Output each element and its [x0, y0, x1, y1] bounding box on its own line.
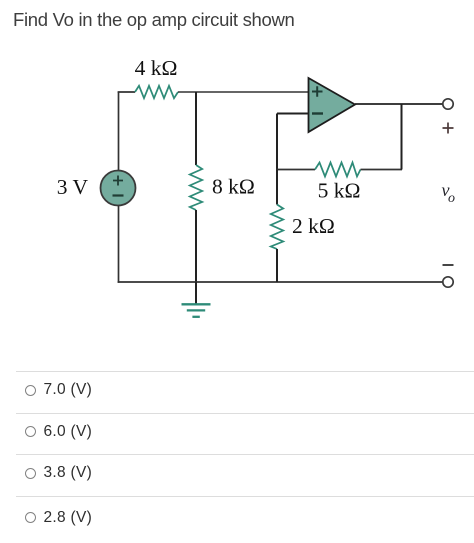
svg-text:8 kΩ: 8 kΩ	[212, 175, 255, 199]
wire minus-input node vertical down to feedback	[276, 114, 278, 171]
svg-text:2 kΩ: 2 kΩ	[292, 214, 335, 238]
wire top horizontal from 4k resistor to op-amp + input	[178, 91, 309, 93]
wire op-amp output	[355, 103, 443, 105]
label 2 kΩ	[292, 214, 335, 238]
wire 2k branch upper vertical	[276, 170, 278, 205]
label 4 kΩ	[135, 56, 178, 80]
label + at output	[443, 123, 454, 134]
wire feedback right vertical up to output	[401, 104, 403, 170]
resistor 8 kΩ (vertical zigzag)	[190, 165, 202, 210]
wire feedback horizontal left segment	[276, 169, 315, 171]
wire source bottom to bottom wire	[118, 206, 120, 283]
ground	[182, 282, 211, 317]
wire top horizontal left segment to 4k resistor	[118, 91, 135, 93]
op-amp U1	[309, 78, 356, 132]
label Vo	[442, 180, 456, 206]
resistor 5 kΩ (horizontal zigzag)	[315, 163, 361, 177]
voltage source 3V (circle with plus minus)	[101, 171, 136, 206]
resistor 4 kΩ (horizontal zigzag)	[135, 86, 178, 98]
output terminal bottom (open circle)	[443, 277, 453, 287]
svg-text:4 kΩ: 4 kΩ	[135, 56, 178, 80]
wire feedback horizontal right segment	[361, 169, 403, 171]
svg-text:3 V: 3 V	[57, 175, 89, 199]
wire 8k branch upper vertical	[195, 92, 197, 165]
label 8 kΩ	[212, 175, 255, 199]
resistor 2 kΩ (vertical zigzag)	[271, 205, 283, 250]
svg-text:5 kΩ: 5 kΩ	[318, 179, 361, 203]
label minus at output	[443, 264, 454, 266]
output terminal top (open circle)	[443, 99, 453, 109]
label 3 V	[57, 175, 89, 199]
wire op-amp minus input horizontal	[277, 113, 309, 115]
wire 8k branch lower vertical to bottom wire	[195, 210, 197, 282]
wire bottom horizontal	[118, 281, 443, 283]
wire 2k branch lower vertical to bottom wire	[276, 249, 278, 282]
label 5 kΩ	[318, 179, 361, 203]
wire top-left: left vertical from top wire to source top	[118, 92, 120, 171]
svg-text:o: o	[448, 191, 455, 206]
